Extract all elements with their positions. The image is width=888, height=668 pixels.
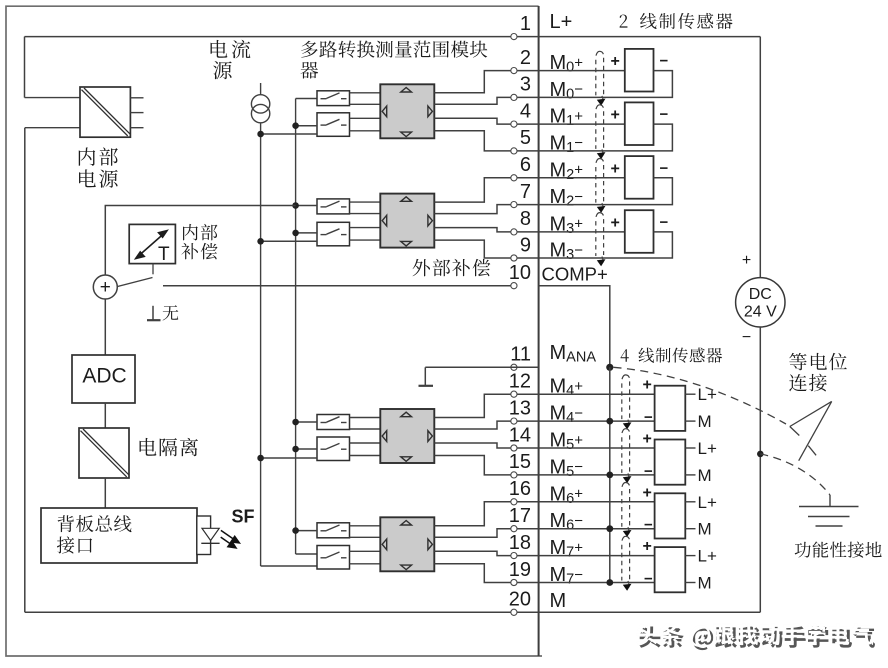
- T box double arrow: [139, 234, 164, 256]
- terminal 3 circle: [511, 94, 517, 100]
- multiplexer U4: [380, 409, 434, 463]
- stub M: [685, 582, 695, 584]
- junction MANA: [606, 364, 613, 371]
- svg-text:7: 7: [520, 181, 531, 203]
- junction bus2/S7: [292, 527, 299, 534]
- svg-text:8: 8: [520, 208, 531, 230]
- switch contact symbol: [321, 124, 327, 126]
- switch box S7: [317, 523, 350, 538]
- terminal 7 circle: [511, 202, 517, 208]
- header 4 线制传感器: [621, 349, 629, 361]
- svg-text:+: +: [742, 252, 751, 269]
- switch contact symbol: [321, 206, 327, 208]
- wires switchbox to mux: [350, 201, 381, 203]
- switch contact symbol: [321, 234, 327, 236]
- bus input wires with junction dots: [296, 125, 317, 127]
- svg-text:L+: L+: [698, 547, 717, 566]
- wire ADC to isolation: [104, 403, 106, 428]
- wire M_ANA row 11 with reference symbol: [425, 366, 538, 368]
- svg-text:−: −: [660, 106, 669, 123]
- junction bus1/S6: [257, 455, 264, 462]
- label 电流源: [211, 40, 251, 59]
- 2-wire sensor B3: [539, 177, 625, 179]
- svg-text:L+: L+: [698, 493, 717, 512]
- svg-text:11: 11: [510, 344, 531, 366]
- stub M: [685, 420, 695, 422]
- power supply output stub: [130, 127, 143, 129]
- cable shield dashes: [596, 213, 603, 217]
- svg-text:+: +: [643, 377, 652, 394]
- svg-text:T: T: [158, 244, 170, 265]
- svg-text:−: −: [660, 160, 669, 177]
- return wire: [539, 71, 673, 98]
- svg-text:+: +: [611, 214, 620, 231]
- svg-text:+: +: [100, 277, 111, 298]
- svg-text:M: M: [698, 520, 712, 539]
- wire isolation to backplane: [104, 478, 106, 508]
- junction minus to MANA bus: [606, 418, 613, 425]
- svg-text:L+: L+: [550, 11, 573, 33]
- terminal 6 circle: [511, 175, 517, 181]
- svg-text:19: 19: [509, 559, 531, 581]
- multiplexer U2: [380, 84, 434, 138]
- terminal 4 circle: [511, 121, 517, 127]
- terminal 17 circle: [511, 526, 517, 532]
- svg-text:−: −: [644, 571, 653, 588]
- current source 电流源 symbol: [260, 83, 262, 95]
- terminal 19 circle: [511, 579, 517, 585]
- svg-text:DC: DC: [749, 286, 772, 303]
- svg-text:M: M: [698, 466, 712, 485]
- label 等电位连接: [789, 353, 847, 370]
- svg-text:4: 4: [520, 100, 531, 122]
- junction minus to MANA bus: [606, 472, 613, 479]
- svg-text:+: +: [611, 160, 620, 177]
- galvanic isolation box 电隔离: [79, 428, 129, 478]
- multiplexer U3: [380, 194, 434, 248]
- power supply output stub: [130, 112, 143, 114]
- mux fanout wires to terminals: [434, 178, 538, 202]
- terminal 20 circle: [511, 609, 517, 615]
- mux fanout wires to terminals: [434, 71, 538, 93]
- internal compensation T box: [129, 224, 175, 263]
- cable shield dashes: [622, 375, 629, 379]
- svg-text:M: M: [698, 574, 712, 593]
- svg-text:6: 6: [520, 154, 531, 176]
- terminal 8 circle: [511, 229, 517, 235]
- wires switchbox to mux: [350, 92, 381, 94]
- svg-text:17: 17: [509, 505, 531, 527]
- terminal 2 circle: [511, 68, 517, 74]
- wire from summing point up to bus2: [105, 206, 295, 276]
- wires switchbox to mux: [350, 417, 381, 419]
- power supply (isolation) box 内部电源: [80, 87, 130, 137]
- switch box S1: [317, 91, 350, 106]
- junction bus2/S6: [292, 446, 299, 453]
- wire COMP+ terminal 10 to MANA bus: [539, 286, 610, 368]
- svg-text:16: 16: [509, 478, 531, 500]
- svg-text:+: +: [611, 53, 620, 70]
- label 功能性接地: [795, 541, 882, 557]
- T box bottom stub: [152, 264, 154, 275]
- mux fanout wires to terminals: [434, 394, 538, 417]
- terminal 18 circle: [511, 553, 517, 559]
- stub M: [685, 474, 695, 476]
- stub L+: [685, 447, 695, 449]
- svg-text:10: 10: [509, 262, 531, 284]
- equipotential arrow annotation: [790, 401, 832, 426]
- terminal strip line: [538, 6, 540, 656]
- wire COMP+ (external compensation) to terminal 10: [163, 285, 514, 287]
- module bottom edge = wire M (row20): [25, 611, 539, 613]
- svg-text:−: −: [742, 329, 751, 346]
- terminal 12 circle: [511, 391, 517, 397]
- cable shield dashes: [596, 51, 603, 55]
- wire bus2 end into switch S8 upper input: [296, 553, 317, 555]
- svg-text:−: −: [644, 517, 653, 534]
- junction equipotential tap: [757, 451, 764, 458]
- wire: M rail left side: [25, 127, 80, 129]
- cable shield dashes: [596, 105, 603, 109]
- stub L+: [685, 393, 695, 395]
- power supply output stub: [130, 97, 143, 99]
- header 2 线制传感器: [620, 15, 628, 28]
- switch box S5: [317, 415, 350, 430]
- switch box S4: [317, 222, 350, 246]
- wire bus2 top into switch S1: [296, 98, 317, 100]
- 2-wire sensor B2: [539, 123, 625, 125]
- terminal 1 circle: [511, 34, 517, 40]
- mux fanout wires to terminals: [434, 502, 538, 526]
- wire into power supply input 1: [25, 97, 81, 99]
- multiplexer U5: [380, 517, 434, 571]
- return wire: [539, 124, 673, 151]
- terminal 11 circle: [511, 364, 517, 370]
- switch contact symbol: [321, 530, 327, 532]
- SF LED tab: [197, 516, 211, 555]
- switch contact symbol: [321, 557, 327, 559]
- svg-text:−: −: [644, 409, 653, 426]
- svg-text:12: 12: [509, 371, 531, 393]
- svg-text:1: 1: [520, 13, 531, 35]
- backplane bus interface box 背板总线接口: [41, 508, 197, 563]
- switch box S6: [317, 437, 350, 461]
- LED emission arrows: [221, 530, 235, 539]
- junction bus2/S2: [292, 122, 299, 129]
- svg-text:+: +: [643, 484, 652, 501]
- bus: mux common / compensation line: [295, 99, 297, 555]
- summing point + circle: [93, 275, 117, 299]
- LED diode symbol: [202, 528, 219, 540]
- svg-text:M: M: [698, 412, 712, 431]
- svg-text:L+: L+: [698, 439, 717, 458]
- label 外部补偿: [413, 259, 491, 276]
- junction bus1/S2: [257, 131, 264, 138]
- 4-wire sensor B8: [539, 555, 655, 557]
- functional earth symbol: [829, 495, 831, 506]
- terminal 13 circle: [511, 418, 517, 424]
- svg-text:−: −: [660, 214, 669, 231]
- terminal 9 circle: [511, 255, 517, 261]
- terminal 10 circle: [511, 283, 517, 289]
- svg-text:−: −: [644, 463, 653, 480]
- DC 24V source circle: [736, 278, 785, 327]
- cable shield dashes: [622, 429, 629, 433]
- 4-wire sensor B5: [539, 393, 655, 395]
- 4-wire sensor B6: [539, 447, 655, 449]
- svg-text:9: 9: [520, 234, 531, 256]
- MANA common bus: [609, 367, 611, 582]
- terminal 15 circle: [511, 472, 517, 478]
- wire + to ADC: [104, 299, 106, 355]
- svg-text:2: 2: [520, 47, 531, 69]
- svg-text:COMP+: COMP+: [542, 264, 608, 285]
- cable shield dashes: [622, 482, 629, 486]
- dashed equipotential curve from MANA: [614, 367, 787, 424]
- svg-text:SF: SF: [232, 507, 255, 527]
- switch contact symbol: [321, 422, 327, 424]
- svg-text:5: 5: [520, 127, 531, 149]
- return wire: [539, 178, 673, 205]
- junction bus2/S5: [292, 419, 299, 426]
- terminal 16 circle: [511, 499, 517, 505]
- switch box S8: [317, 546, 350, 570]
- junction minus to MANA bus: [606, 525, 613, 532]
- junction bus2/S3: [292, 202, 299, 209]
- label 内部补偿: [183, 224, 217, 241]
- svg-text:+: +: [643, 538, 652, 555]
- terminal 14 circle: [511, 445, 517, 451]
- return wire: [539, 232, 673, 258]
- cable shield dashes: [622, 536, 629, 540]
- junction minus to MANA bus: [606, 579, 613, 586]
- stub L+: [685, 555, 695, 557]
- switch box S2: [317, 113, 350, 137]
- 2-wire sensor B1: [539, 70, 625, 72]
- module frame: top edge = wire L+ (row1): [25, 36, 539, 38]
- label 多路转换测量范围模块器: [301, 41, 487, 58]
- label 电隔离: [140, 438, 198, 456]
- label 内部电源: [79, 147, 118, 165]
- svg-text:24 V: 24 V: [744, 304, 777, 321]
- wire 24V minus down to terminal 20: [759, 327, 761, 612]
- svg-text:18: 18: [509, 532, 531, 554]
- switch contact symbol: [321, 98, 327, 100]
- svg-text:20: 20: [509, 589, 531, 611]
- watermark 头条 @跟我动手学电气: [639, 626, 875, 650]
- svg-text:14: 14: [509, 424, 531, 446]
- junction bus1/S4: [257, 238, 264, 245]
- svg-text:3: 3: [520, 74, 531, 96]
- outer housing frame: [6, 6, 542, 656]
- 4-wire sensor B7: [539, 501, 655, 503]
- 2-wire sensor B4: [539, 231, 625, 233]
- svg-text:M: M: [550, 590, 567, 612]
- svg-text:ADC: ADC: [82, 365, 126, 388]
- cable shield dashes: [596, 158, 603, 162]
- junction bus2/S4: [292, 230, 299, 237]
- svg-text:+: +: [611, 107, 620, 124]
- terminal 5 circle: [511, 148, 517, 154]
- svg-text:13: 13: [509, 397, 531, 419]
- svg-text:+: +: [643, 431, 652, 448]
- selector switch arm: [118, 278, 153, 287]
- switch box S3: [317, 199, 350, 214]
- stub L+: [685, 501, 695, 503]
- no-compensation symbol ⊥ 无: [152, 306, 154, 320]
- stub M: [685, 528, 695, 530]
- wire L+ from terminal 1 to 24V supply: [539, 36, 761, 38]
- svg-text:−: −: [660, 53, 669, 70]
- wire: L+ rail down left side: [24, 37, 26, 98]
- dashed curve 24V tap to ground: [760, 454, 830, 495]
- wires switchbox to mux: [350, 525, 381, 527]
- switch contact symbol: [321, 448, 327, 450]
- svg-text:15: 15: [509, 451, 531, 473]
- bus: current source line: [260, 123, 262, 566]
- ADC box U9: [72, 355, 135, 403]
- wire bus1 end into switch S8: [261, 565, 317, 567]
